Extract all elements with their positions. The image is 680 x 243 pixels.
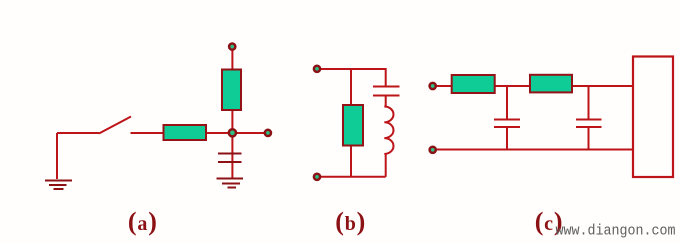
svg-text:www.diangon.com: www.diangon.com xyxy=(556,224,676,240)
svg-text:(b): (b) xyxy=(335,207,366,236)
svg-text:(a): (a) xyxy=(128,207,158,236)
